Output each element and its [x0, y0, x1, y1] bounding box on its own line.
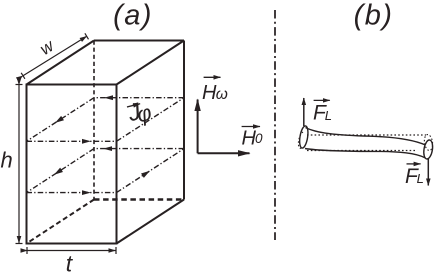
box hidden back-bottom edge (dashed)	[94, 198, 184, 201]
svg-text:(b): (b)	[354, 0, 394, 31]
svg-text:ω: ω	[216, 86, 228, 103]
rod top edge	[306, 128, 426, 146]
svg-text:t: t	[66, 251, 74, 275]
H_0 axis arrow (horizontal)	[198, 152, 250, 154]
box top-left edge	[27, 41, 95, 85]
label F_L top	[313, 100, 332, 124]
current loop 2 front segment	[27, 192, 117, 194]
box hidden bottom-left depth edge (dashed)	[27, 200, 95, 244]
force F_L up arrow	[303, 98, 305, 126]
rod undeformed right end (dotted ellipse)	[423, 134, 433, 151]
box front face	[27, 85, 117, 244]
dimension h line	[16, 85, 23, 244]
current loop 1 front segment	[27, 140, 117, 142]
dimension w line	[21, 33, 88, 79]
svg-text:0: 0	[255, 131, 263, 146]
rod left end cap (ellipse)	[298, 125, 309, 148]
box top-right edge	[117, 41, 185, 85]
divider dash-dot line	[274, 10, 276, 240]
rod right end cap (ellipse)	[423, 139, 434, 159]
dimension t line	[27, 247, 116, 254]
loop 2 right connector arrow	[141, 169, 151, 178]
svg-text:h: h	[1, 148, 13, 173]
rod bottom edge	[305, 149, 426, 159]
svg-text:H: H	[202, 82, 217, 104]
loop 2 left connector arrow	[53, 168, 63, 177]
H axes corner	[198, 100, 250, 154]
loop 2 back arrow	[103, 146, 112, 151]
current loop 1 right connector	[117, 98, 185, 142]
loop 2 front arrow	[82, 190, 91, 195]
rod undeformed outline top (dotted)	[307, 134, 426, 136]
label H_0	[242, 127, 264, 150]
rod undeformed outline bottom (dotted)	[307, 150, 416, 152]
current loop 1 back segment	[94, 97, 184, 99]
box back-right edge	[183, 41, 185, 200]
box hidden back-left edge (dashed)	[93, 41, 95, 200]
H_omega axis arrow (vertical)	[197, 100, 199, 154]
label J_phi with vector arrow	[124, 96, 154, 130]
current loop 2 right connector	[117, 149, 185, 193]
loop 1 back arrow	[104, 95, 113, 100]
svg-text:(a): (a)	[113, 0, 153, 31]
current loop 2 left connector	[27, 149, 95, 193]
label F_L bottom	[405, 164, 424, 188]
rod undeformed left end (dotted arc)	[298, 132, 303, 148]
loop 1 front arrow	[82, 139, 91, 144]
force F_L down arrow	[427, 158, 429, 186]
loop 1 left connector arrow	[54, 116, 64, 125]
svg-text:L: L	[417, 171, 424, 186]
box back-top edge	[94, 40, 184, 42]
label H_omega	[202, 77, 228, 104]
current loop 2 back segment	[94, 148, 184, 150]
box bottom-right edge	[117, 200, 185, 244]
current loop 1 left connector	[27, 98, 95, 142]
svg-text:L: L	[325, 108, 332, 123]
